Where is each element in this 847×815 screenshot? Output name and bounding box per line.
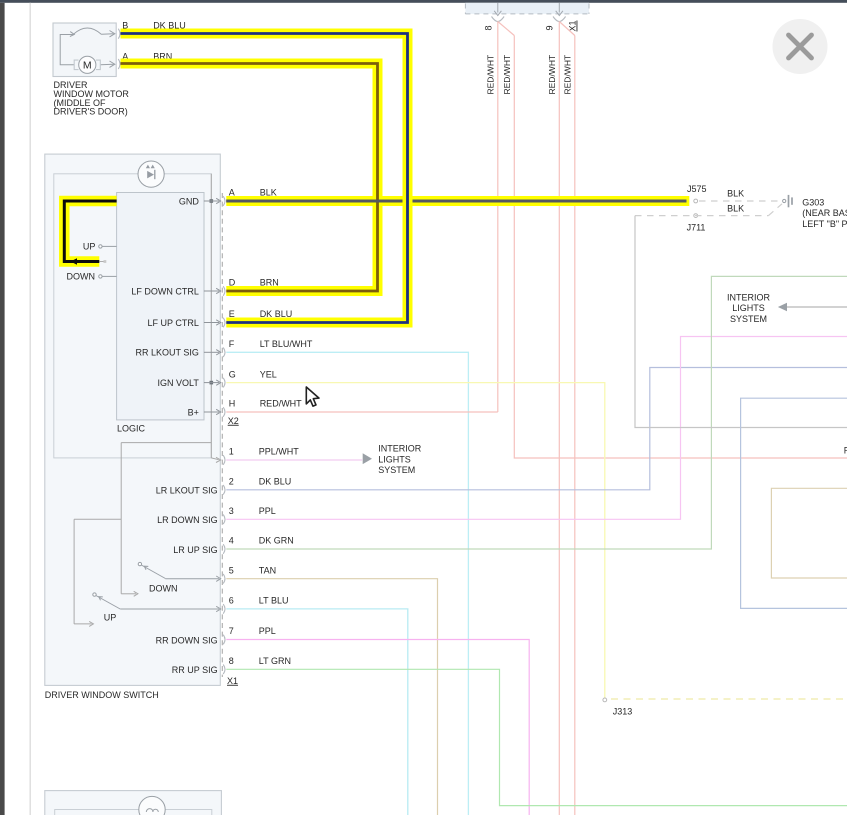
wire LT GRN (pin 8) (226, 669, 847, 805)
wire DK BLU highlighted (motor B to pin E) : highlight band (121, 34, 408, 323)
wire PPL (pin 7) (226, 640, 529, 815)
wire BRN highlighted (motor A to pin D) : highlight band (121, 64, 378, 292)
wire RED/WHT vertical 2 (pin 8 branch, to right edge) (514, 36, 847, 459)
motor brush contacts (74, 60, 100, 70)
re-draw BLK core over crossings (226, 200, 400, 203)
lockout icon arrows (146, 165, 155, 179)
svg-text:BLK: BLK (727, 203, 744, 213)
svg-text:7: 7 (229, 626, 234, 636)
svg-text:M: M (83, 60, 92, 72)
svg-text:RR LKOUT SIG: RR LKOUT SIG (136, 348, 199, 358)
svg-text:9: 9 (545, 26, 555, 31)
wire from inner box to pin 1 (211, 458, 218, 460)
svg-text:RED/WHT: RED/WHT (260, 399, 302, 409)
wire into pin 9 (arrow) (556, 3, 563, 16)
svg-text:8: 8 (484, 26, 494, 31)
junction dot at GND (210, 199, 214, 203)
node J711 (694, 214, 698, 218)
common contact stub (99, 261, 103, 263)
svg-text:1: 1 (229, 447, 234, 457)
wire PPL/WHT (pin 1) (226, 459, 362, 461)
wire BRN core (121, 64, 378, 292)
junction dot at IGN VOLT (210, 381, 214, 385)
svg-text:UP: UP (104, 613, 117, 623)
svg-text:YEL: YEL (260, 369, 277, 379)
svg-text:5: 5 (229, 565, 234, 575)
svg-text:G: G (229, 369, 236, 379)
pin 9 connector bracket (553, 17, 566, 22)
passenger switch rocker circle (139, 796, 165, 815)
wire RED/WHT vertical 4 (pin 9 branch down off page) (574, 36, 576, 815)
svg-text:BRN: BRN (260, 278, 279, 288)
svg-text:6: 6 (229, 596, 234, 606)
svg-text:A: A (229, 188, 235, 198)
wire RED/WHT vertical 1 (pin 8 to switch H / B+) (498, 22, 515, 413)
dashed BLK wire J711 to G303 (635, 204, 782, 216)
svg-text:RED/WHT: RED/WHT (486, 55, 496, 95)
wire YEL (pin G to J313) (226, 383, 605, 698)
svg-text:F: F (229, 339, 235, 349)
svg-text:UP: UP (83, 241, 96, 251)
dashed BLK wire J575 to G303 (699, 200, 782, 202)
svg-text:DK BLU: DK BLU (259, 477, 292, 487)
DOWN contact (driver rocker) (99, 275, 102, 278)
svg-text:BLK: BLK (727, 188, 744, 198)
connector C2 dashed outline (465, 4, 589, 14)
svg-text:LT BLU/WHT: LT BLU/WHT (260, 339, 313, 349)
IGN VOLT arrow to pin G (204, 382, 219, 384)
svg-text:LR DOWN SIG: LR DOWN SIG (157, 515, 218, 525)
RR LKOUT SIG arrow to pin F (204, 351, 219, 353)
svg-text:DOWN: DOWN (67, 272, 96, 282)
svg-text:LF DOWN CTRL: LF DOWN CTRL (131, 286, 199, 296)
svg-text:DRIVER WINDOW SWITCH: DRIVER WINDOW SWITCH (45, 690, 159, 700)
motor pin B bracket (118, 29, 120, 39)
pin 8 connector bracket (492, 17, 505, 22)
svg-text:D: D (229, 278, 236, 288)
rear rocker UP switch (93, 593, 96, 596)
wire LT BLU (pin 6) (226, 609, 407, 815)
svg-text:RED/WHT: RED/WHT (563, 55, 573, 95)
left panel divider line (29, 3, 31, 815)
node J313 (603, 698, 607, 702)
motor pin A bracket (118, 59, 120, 69)
svg-text:TAN: TAN (259, 565, 276, 575)
svg-text:LOGIC: LOGIC (117, 423, 146, 433)
LF DOWN CTRL arrow to pin D (204, 290, 219, 292)
driver window switch outer box (45, 154, 221, 685)
rear rocker DOWN switch (138, 562, 141, 565)
arrow to interior lights system (363, 453, 372, 464)
connector X2/X1 dashed boundary (221, 193, 223, 677)
ground G303 symbol (783, 195, 792, 207)
svg-text:X2: X2 (228, 416, 239, 426)
switch inner assembly box (54, 174, 212, 458)
LOGIC block (117, 193, 204, 420)
wire into pin 8 (arrow) (494, 3, 501, 16)
svg-text:GND: GND (179, 196, 200, 206)
pin brackets X2 and X1 (223, 196, 225, 674)
wire PPL (pin 3) (226, 337, 847, 520)
passenger switch inner box (55, 810, 212, 815)
switch internal ground wire core (BLK) (64, 201, 116, 262)
interior lights system arrow (right) (787, 306, 847, 308)
ground feed wire to rear rocker (74, 174, 211, 627)
svg-text:J575: J575 (687, 184, 707, 194)
svg-text:DK GRN: DK GRN (259, 536, 294, 546)
svg-text:J711: J711 (687, 222, 706, 232)
svg-text:X1: X1 (227, 676, 238, 686)
svg-text:LR UP SIG: LR UP SIG (173, 545, 217, 555)
wire LT BLU/WHT (pin F) (226, 352, 468, 815)
wire RED/WHT vertical 3 (pin 9 down off page) (559, 22, 575, 815)
window lockout symbol circle (138, 161, 164, 187)
UP contact (driver rocker) (99, 245, 102, 248)
wire DK BLU core (121, 34, 408, 323)
rocker icon arcs (146, 809, 158, 812)
svg-text:INTERIORLIGHTSSYSTEM: INTERIORLIGHTSSYSTEM (727, 292, 771, 324)
motor internal wiring (60, 28, 115, 67)
wire DK BLU C-shape right (741, 398, 847, 608)
direction arrow on internal wire (71, 258, 78, 265)
left scrollbar strip (0, 3, 5, 815)
mouse cursor (306, 387, 319, 406)
svg-text:LT GRN: LT GRN (259, 656, 291, 666)
svg-text:J313: J313 (613, 707, 633, 717)
top toolbar bar (0, 0, 847, 3)
wire BLK core (226, 200, 686, 203)
svg-text:LF UP CTRL: LF UP CTRL (148, 318, 199, 328)
svg-text:BLK: BLK (260, 188, 277, 198)
connector C2 (top, cut off) body (465, 3, 589, 14)
driver window motor box (53, 23, 116, 77)
motor M symbol (79, 56, 96, 73)
GND output arrow to pin A (204, 200, 219, 202)
svg-text:H: H (229, 399, 236, 409)
wire TAN C-shape right (771, 488, 847, 578)
svg-text:8: 8 (229, 656, 234, 666)
close button (773, 19, 828, 74)
wire RED/WHT (pin H) (226, 411, 498, 413)
switch internal ground wire highlighted : band (64, 201, 116, 262)
LF UP CTRL arrow to pin E (204, 322, 219, 324)
svg-text:DK BLU: DK BLU (260, 309, 293, 319)
svg-text:3: 3 (229, 506, 234, 516)
svg-text:B+: B+ (188, 407, 199, 417)
svg-text:RED/WHT: RED/WHT (502, 55, 512, 95)
B+ arrow to pin H (204, 411, 219, 413)
wire DK BLU (pin 2) (226, 368, 847, 490)
node J575 (694, 199, 698, 203)
svg-text:RR UP SIG: RR UP SIG (172, 665, 218, 675)
wire DK GRN (pin 4) (226, 276, 847, 549)
svg-text:IGN VOLT: IGN VOLT (158, 378, 200, 388)
passenger window switch box (bottom, cut off) (45, 791, 222, 815)
wire BLK highlighted (pin A to J575) : highlight band (226, 196, 689, 206)
svg-text:PPL: PPL (259, 506, 276, 516)
svg-text:LT BLU: LT BLU (259, 596, 289, 606)
svg-text:RR DOWN SIG: RR DOWN SIG (156, 635, 218, 645)
svg-text:PPL/WHT: PPL/WHT (259, 447, 300, 457)
svg-text:DOWN: DOWN (149, 583, 178, 593)
svg-text:2: 2 (229, 477, 234, 487)
dashed YEL wire from J313 (611, 698, 847, 700)
svg-text:RED/WHT: RED/WHT (547, 55, 557, 95)
gray BLK wire from J711 down and right (635, 216, 847, 428)
svg-text:E: E (229, 309, 235, 319)
wire TAN (pin 5) (226, 579, 437, 815)
svg-text:4: 4 (229, 536, 234, 546)
svg-text:LR LKOUT SIG: LR LKOUT SIG (156, 486, 218, 496)
svg-text:PPL: PPL (259, 626, 276, 636)
